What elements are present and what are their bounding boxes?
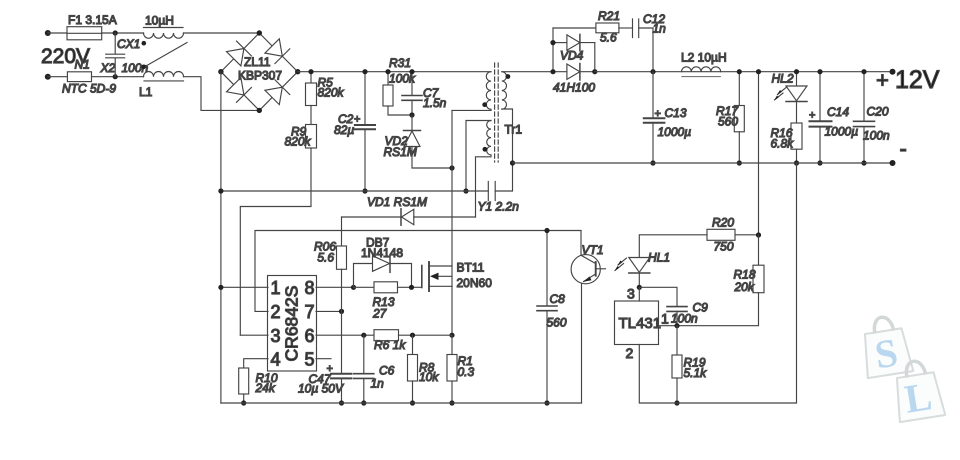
- wire: MOSFET source to current sense node: [451, 286, 453, 335]
- svg-text:82µ: 82µ: [334, 123, 354, 137]
- node: pin1/C9/R19 junction: [674, 323, 679, 328]
- node: C2 bottom on ground rail: [362, 188, 367, 193]
- svg-text:4: 4: [271, 350, 281, 370]
- resistor R19 5.1k: [672, 326, 682, 403]
- diode VD4 (upper parallel half): [553, 34, 595, 51]
- svg-text:KBP307: KBP307: [238, 69, 282, 83]
- inductor L2 10uH: [682, 67, 721, 77]
- svg-text:1N4148: 1N4148: [361, 246, 403, 260]
- node: VD4 cathode junction: [592, 69, 597, 74]
- svg-text:1: 1: [661, 311, 669, 327]
- wire: pin 2 left and up to opto collector line: [255, 231, 581, 312]
- resistor R8 10k: [408, 335, 418, 403]
- resistor R31 100k: [383, 72, 412, 115]
- svg-text:750: 750: [714, 240, 734, 254]
- wire: N1 to CX1 bottom node: [92, 76, 144, 78]
- svg-text:12V: 12V: [895, 66, 940, 94]
- node: R31 top on rail: [385, 69, 390, 74]
- node: source/R1/R6 node: [449, 333, 454, 338]
- node: ground rail start at DC- rail: [218, 188, 223, 193]
- svg-text:10µ 50V: 10µ 50V: [298, 382, 344, 396]
- svg-text:N1: N1: [75, 58, 90, 72]
- transformer Tr1: auxiliary winding: [487, 121, 491, 155]
- svg-text:L1: L1: [139, 85, 153, 99]
- node: bridge left corner (DC minus): [218, 69, 223, 74]
- svg-text:VD4: VD4: [560, 49, 584, 63]
- svg-text:CR6842S: CR6842S: [282, 286, 302, 362]
- diode VD4 41H100 (output rectifier, lower): [502, 64, 595, 81]
- inductor: common-mode choke top winding 10uH: [144, 28, 184, 39]
- svg-text:+: +: [354, 114, 360, 126]
- svg-text:ZL11: ZL11: [244, 55, 271, 69]
- diode DB7 1N4148 (gate, cathode right): [354, 255, 412, 287]
- svg-text:BT11: BT11: [457, 261, 485, 275]
- svg-text:C8: C8: [550, 292, 566, 306]
- wire: primary ground rail: [221, 190, 488, 192]
- node: R17 bottom on return rail: [737, 160, 742, 165]
- diode: bridge bottom-right (anode bottom corner, cathode right corner): [265, 80, 290, 105]
- watermark: shopping bag logo L: [891, 358, 946, 423]
- resistor R10 24k: [239, 368, 249, 403]
- svg-text:R20: R20: [712, 216, 734, 230]
- svg-text:X2: X2: [100, 61, 116, 75]
- svg-text:820k: 820k: [285, 135, 312, 149]
- svg-text:100n: 100n: [863, 129, 890, 143]
- svg-text:F1 3.15A: F1 3.15A: [68, 13, 117, 27]
- svg-text:8: 8: [304, 278, 314, 298]
- wire: R9 bottom down across ground rail to pin3 line: [240, 148, 311, 335]
- node: R10 bottom on primary ground: [241, 400, 246, 405]
- node: bridge right corner (DC plus): [295, 69, 300, 74]
- resistor R13 27 (gate): [354, 282, 422, 293]
- node: C8 top on opto line: [544, 228, 549, 233]
- svg-text:7: 7: [304, 302, 314, 322]
- node: C14 bottom on return rail: [817, 160, 822, 165]
- diode VD1 RS1M (aux rectifier, cathode left): [342, 209, 476, 225]
- node: R8 bottom on primary ground: [410, 400, 415, 405]
- node: R5 top on rail: [308, 69, 313, 74]
- transformer Tr1: secondary winding: [495, 72, 512, 191]
- svg-text:5.6: 5.6: [600, 31, 617, 45]
- node: secondary return junction (Y1 / output minus): [510, 160, 515, 165]
- capacitor C2 82u electrolytic: [355, 72, 375, 191]
- wire: secondary +12V rail from VD4 to output terminal: [595, 71, 893, 73]
- node: R8 tap junction: [410, 333, 415, 338]
- node: junction CX1 top: [113, 30, 118, 35]
- svg-text:100n: 100n: [671, 312, 698, 326]
- node: gate network right junction: [409, 285, 414, 290]
- node: C20 top on +12V rail: [861, 69, 866, 74]
- svg-text:1n: 1n: [653, 22, 667, 36]
- resistor R1 0.3 (current sense): [447, 335, 457, 403]
- wire: drain line from primary bottom to MOSFET drain: [451, 110, 453, 266]
- node: R1 bottom on primary ground: [449, 400, 454, 405]
- wire: top choke to bridge top corner: [184, 32, 260, 34]
- node: output minus terminal: [890, 160, 896, 166]
- polarity dot: aux winding: [483, 147, 488, 152]
- wire: pin 7 to VDD line: [316, 310, 342, 312]
- svg-text:CX1: CX1: [117, 37, 140, 51]
- wire: L1 to bridge bottom corner: [184, 77, 260, 111]
- thermistor N1 NTC 5D-9: [67, 72, 91, 82]
- node: C6 bottom on primary ground: [361, 400, 366, 405]
- resistor R5 820k: [306, 72, 317, 125]
- wire: TL431 pin2 to secondary ground run: [639, 163, 796, 403]
- capacitor C8 560: [537, 231, 557, 404]
- svg-text:-: -: [900, 136, 907, 161]
- inductor L1: common-mode choke bottom winding: [144, 72, 184, 81]
- svg-text:560: 560: [547, 316, 567, 330]
- LED HL2 (indicator): [786, 72, 807, 123]
- node: VD4 upper diode tap: [550, 40, 555, 45]
- svg-text:VD1 RS1M: VD1 RS1M: [367, 195, 427, 209]
- svg-text:VT1: VT1: [582, 243, 604, 257]
- node: TL431 ref node (pin 3): [637, 285, 642, 290]
- node: R20/R18 junction on feedback line: [756, 232, 761, 237]
- capacitor C7 1.5n: [402, 72, 422, 115]
- resistor R20 750: [639, 229, 758, 257]
- svg-text:+: +: [809, 110, 815, 122]
- svg-text:Y1 2.2n: Y1 2.2n: [478, 200, 520, 214]
- svg-text:10k: 10k: [419, 370, 439, 384]
- svg-text:0.3: 0.3: [458, 365, 475, 379]
- wire: pin 6 to sense network: [316, 334, 374, 336]
- node: aux top lead on ground rail: [463, 188, 468, 193]
- node: +12V output terminal: [890, 69, 896, 75]
- node: VD2 to drain line junction: [449, 165, 454, 170]
- svg-text:10µH: 10µH: [145, 14, 174, 28]
- transistor Q1 BT11 20N60 (power MOSFET): [422, 262, 452, 291]
- capacitor C12 1n (snubber): [633, 19, 654, 72]
- node: pin1 on DC- rail: [218, 285, 223, 290]
- svg-text:+: +: [876, 68, 889, 93]
- wire: pin 8 to gate network: [316, 286, 354, 288]
- fuse F1 3.15A: [67, 27, 102, 40]
- resistor R6 1k: [374, 330, 452, 341]
- svg-text:1.5n: 1.5n: [423, 96, 447, 110]
- svg-text:R6 1k: R6 1k: [374, 338, 406, 352]
- node: junction CX1 bottom: [113, 74, 118, 79]
- IC U1 CR6842S: [268, 276, 317, 372]
- svg-text:C14: C14: [827, 105, 849, 119]
- svg-text:3: 3: [627, 286, 635, 302]
- resistor R9 820k: [306, 125, 317, 149]
- resistor R17 560: [734, 72, 744, 163]
- node: R19 bottom on TL431 ground: [674, 400, 679, 405]
- capacitor C13 1000u electrolytic: [644, 72, 665, 163]
- node: pin 7 junction on VDD line: [339, 309, 344, 314]
- wire: output return rail (0V): [513, 162, 893, 164]
- emission arrows HL1: [615, 258, 627, 271]
- svg-text:27: 27: [372, 307, 388, 321]
- node: R16 bottom / ground feedback tap: [794, 160, 799, 165]
- svg-text:20N60: 20N60: [457, 276, 493, 290]
- wire: feedback tap vertical (+12V down to R20/R18): [758, 72, 760, 235]
- wire: DC- left rail from bridge left corner down to primary ground rail: [220, 72, 222, 403]
- svg-text:24k: 24k: [255, 381, 276, 395]
- svg-text:5.6: 5.6: [317, 251, 334, 265]
- svg-text:L2 10µH: L2 10µH: [681, 51, 727, 65]
- svg-text:C6: C6: [379, 364, 395, 378]
- IC TL431: [615, 287, 659, 344]
- svg-text:C20: C20: [867, 105, 889, 119]
- watermark: shopping bag logo S: [859, 314, 914, 379]
- wire: VD4 anode-side vertical (snubber tap): [552, 28, 554, 72]
- wire: pin 5 stub (nc): [316, 358, 331, 360]
- node: gate network left junction: [351, 285, 356, 290]
- diode: bridge bottom-left (anode left corner, cathode bottom corner): [227, 78, 252, 103]
- resistor R16 6.8k: [791, 123, 802, 163]
- svg-text:HL2: HL2: [772, 72, 794, 86]
- svg-text:C13: C13: [665, 106, 687, 120]
- svg-text:5.1k: 5.1k: [684, 366, 708, 380]
- node: R17 top on +12V rail: [737, 69, 742, 74]
- resistor R18 20k: [659, 235, 764, 326]
- svg-text:RS1M: RS1M: [384, 145, 417, 159]
- svg-text:2: 2: [271, 302, 281, 322]
- node: C14 top on +12V rail: [817, 69, 822, 74]
- svg-text:Tr1: Tr1: [505, 123, 523, 137]
- polarity dot: primary winding: [482, 102, 487, 107]
- resistor R06 5.6 (VDD series): [337, 217, 347, 311]
- svg-text:1: 1: [271, 278, 281, 298]
- node: snubber/C13 junction on +12V rail: [650, 69, 655, 74]
- node: feedback tap on +12V rail: [756, 69, 761, 74]
- svg-text:5: 5: [304, 350, 314, 370]
- svg-text:HL1: HL1: [648, 251, 670, 265]
- diode: bridge top-right (anode top corner, cathode right corner): [265, 39, 290, 64]
- capacitor C9 100n: [639, 287, 687, 325]
- svg-text:6.8k: 6.8k: [771, 137, 795, 151]
- capacitor C20 100n: [854, 72, 875, 163]
- transformer Tr1: primary winding: [452, 72, 491, 111]
- wire: choke coupling diagonal: [146, 43, 187, 67]
- polarity dot: top choke winding: [142, 41, 147, 46]
- capacitor C6 1n: [354, 335, 374, 403]
- wire: pin 4 to R10: [244, 359, 268, 368]
- diode: bridge top-left (anode left corner, cathode top corner): [227, 41, 252, 66]
- wire: aux winding top lead to primary ground rail: [466, 121, 491, 192]
- node: C20 bottom on return rail: [861, 160, 866, 165]
- svg-text:R21: R21: [598, 9, 620, 23]
- node: C6 tap on pin6 line: [361, 333, 366, 338]
- svg-text:R31: R31: [389, 56, 411, 70]
- resistor R21 5.6 (snubber): [553, 23, 633, 33]
- svg-text:20k: 20k: [734, 280, 755, 294]
- svg-text:41H100: 41H100: [553, 81, 595, 95]
- node: C7 top on rail: [409, 69, 414, 74]
- node: C8 bottom on primary ground: [544, 400, 549, 405]
- node: bridge top corner: [257, 30, 262, 35]
- node: AC line input terminal (top): [45, 30, 51, 36]
- node: C47 bottom on primary ground: [339, 400, 344, 405]
- emission arrows HL2: [774, 88, 786, 101]
- node: HL2 top on +12V rail: [794, 69, 799, 74]
- svg-text:1n: 1n: [371, 377, 385, 391]
- capacitor CX1 X2 100n: [106, 33, 125, 77]
- wire: pin 1 to DC- rail: [221, 286, 268, 288]
- svg-text:2: 2: [626, 345, 634, 361]
- svg-text:+: +: [655, 108, 661, 120]
- node: AC line input terminal (bottom): [45, 74, 51, 80]
- node: C2 top on rail: [362, 69, 367, 74]
- node: C13 bottom on output return rail: [650, 160, 655, 165]
- svg-text:1000µ: 1000µ: [658, 125, 692, 139]
- transistor VT1 (optocoupler phototransistor): [571, 231, 605, 404]
- polarity dot: bottom choke winding: [142, 65, 147, 70]
- node: VD4 anode junction on secondary line: [550, 69, 555, 74]
- polarity dot: secondary winding: [506, 74, 511, 79]
- wire: VD4 cathode-side vertical: [594, 43, 596, 72]
- wire: DC+ top rail from bridge to transformer primary: [298, 71, 491, 73]
- wire: primary ground bottom rail: [221, 402, 582, 404]
- svg-text:820k: 820k: [318, 86, 345, 100]
- diode VD2 RS1M (clamp, cathode up): [404, 115, 453, 168]
- svg-text:560: 560: [718, 115, 738, 129]
- wire: top AC terminal to fuse F1: [48, 32, 67, 34]
- capacitor C14 1000u electrolytic: [810, 72, 832, 163]
- wire: aux winding bottom lead down to VD1: [476, 155, 492, 217]
- svg-text:TL431: TL431: [619, 315, 662, 332]
- wire: fuse to CX1 node: [102, 32, 144, 34]
- svg-text:NTC 5D-9: NTC 5D-9: [62, 82, 116, 96]
- svg-text:3: 3: [271, 326, 281, 346]
- wire: bottom AC terminal to thermistor N1: [48, 76, 68, 78]
- svg-text:6: 6: [304, 326, 314, 346]
- LED HL1 (optocoupler emitter): [629, 258, 650, 288]
- wire: pin 3 stub: [240, 334, 268, 336]
- capacitor C47 10u 50V (VDD filter): [331, 311, 352, 403]
- node: R31/C7/VD2 junction: [409, 112, 414, 117]
- capacitor Y1 2.2n (Y-cap): [488, 182, 495, 201]
- transformer Tr1: core (dashed): [495, 63, 499, 162]
- node: bridge bottom corner: [257, 108, 262, 113]
- bridge rectifier ZL11 KBP307 (diamond): [221, 33, 298, 110]
